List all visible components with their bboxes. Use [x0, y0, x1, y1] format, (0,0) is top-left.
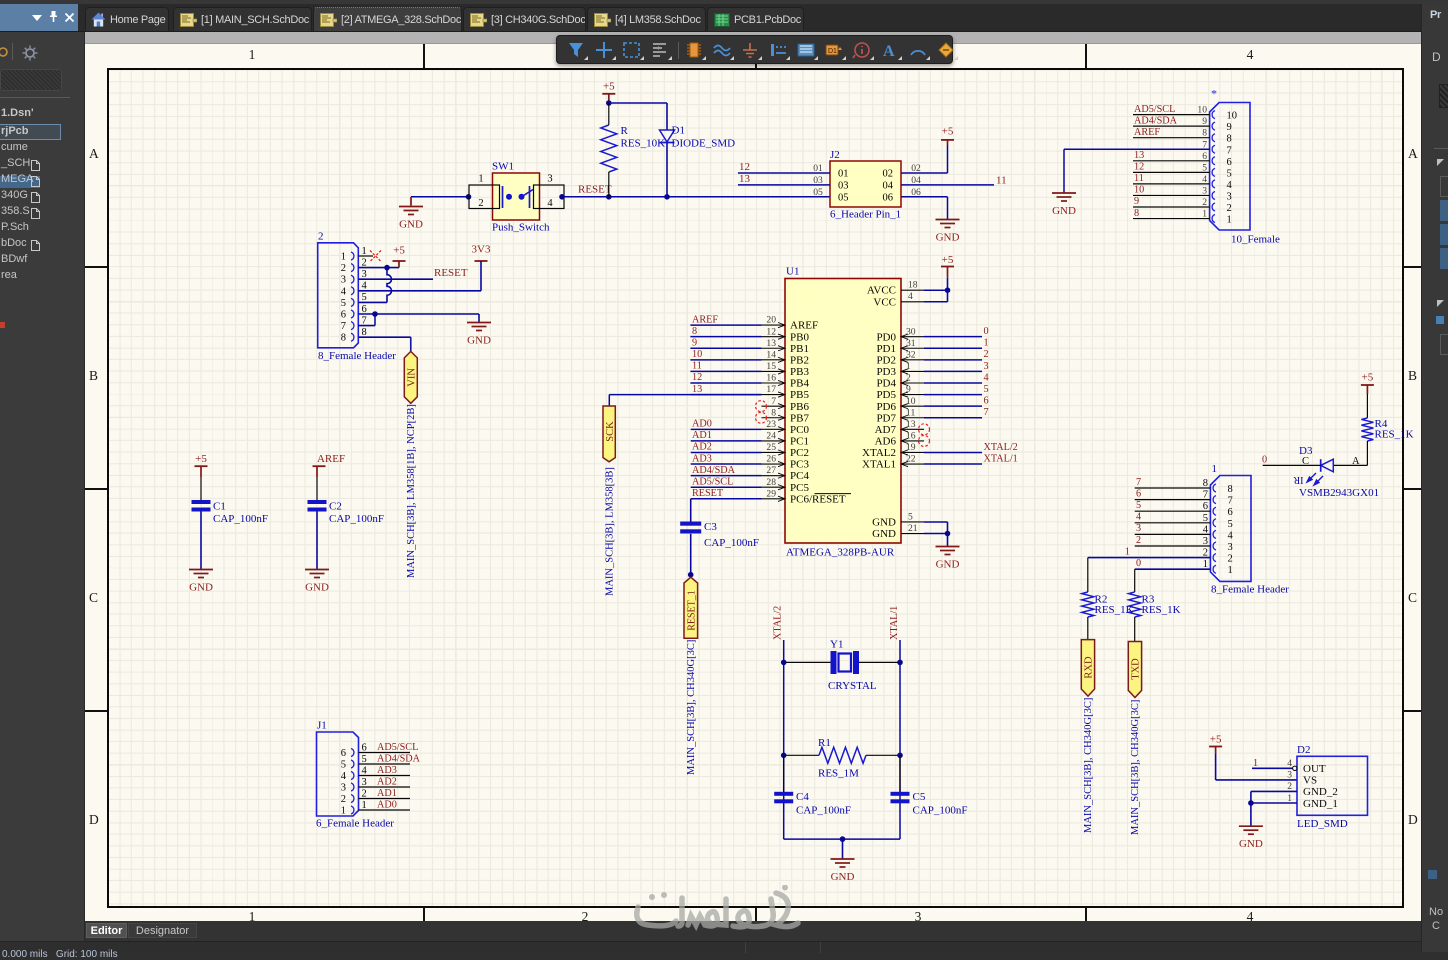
ground GND below crystal — [831, 859, 855, 867]
connector 8_Female Header (1) outline — [1210, 476, 1251, 582]
wire U1 PD6 net 6 — [924, 405, 982, 407]
wire 8_Female(r) pin 2 — [1088, 557, 1211, 559]
junction — [897, 660, 903, 666]
wire net 12 to J2 pin01 — [738, 172, 830, 174]
ground GND below D2 — [1239, 826, 1263, 834]
wire crystal right — [859, 661, 900, 663]
junction AVCC — [945, 287, 951, 293]
capacitor C1 — [192, 500, 211, 504]
junction RESET_1 — [688, 572, 694, 578]
junction +5 / R / D1 — [606, 100, 612, 106]
wire 8_Female pin 7 — [358, 325, 375, 327]
wire net AD2 — [691, 451, 762, 453]
diode D3 VSMB2943GX01 — [1321, 459, 1334, 472]
floating toolbar — [556, 35, 953, 64]
bottom editor bar — [85, 921, 1421, 942]
ground GND below J2 — [936, 220, 960, 228]
wire net AD0 — [691, 428, 762, 430]
U1 right pin PD2 (32) — [901, 359, 924, 361]
port RESET_1 — [684, 577, 698, 638]
wire net 13 to J2 pin03 — [738, 184, 830, 186]
connector J2 6_Header Pin_1 body — [830, 161, 901, 207]
wire pin8 down to VIN port — [410, 337, 412, 351]
SW1 pin box left — [469, 185, 500, 209]
U1 right pin XTAL2 (19) — [901, 451, 924, 453]
U1 left pin PB5 (17) — [762, 394, 786, 396]
wire 8_Female pin 1 — [358, 255, 373, 257]
capacitor C4 — [783, 755, 785, 792]
wire J1 pin 3 AD2 — [359, 786, 411, 788]
wire 8_Female(r) pin 6 — [1135, 510, 1211, 512]
overline on PC6/RESET — [815, 493, 852, 495]
U1 right pin AD6 (16) — [901, 440, 924, 442]
wire VCC — [901, 301, 924, 303]
wire U1 PD7 net 7 — [924, 417, 982, 419]
wire with hops pin2 to pin5 — [387, 268, 392, 303]
watermark khamsat — [630, 885, 820, 940]
ground GND below C2 — [305, 570, 329, 578]
wire 8_Female pin 6 — [358, 313, 479, 315]
crystal Y1 — [831, 651, 837, 674]
wire net 12 — [690, 382, 761, 384]
wire GND_2 — [1251, 790, 1297, 792]
wire 8_Female pin 2 — [358, 267, 399, 269]
U1 right pin XTAL1 (22) — [901, 463, 924, 465]
port TXD — [1128, 642, 1141, 698]
wire net AD3 — [691, 463, 762, 465]
wire 8_Female(r) pin 8 — [1135, 487, 1211, 489]
wire 8_Female pin 4 — [358, 290, 481, 292]
wire net 13 — [690, 394, 761, 396]
wire net 1 to D2 OUT — [1252, 767, 1293, 769]
wire bottom crystal — [784, 838, 900, 840]
junction — [897, 753, 903, 759]
wire to 10_Female pin 8 — [1133, 137, 1210, 139]
wire XTAL/1 vertical — [899, 640, 901, 839]
wire 8_Female(r) pin 7 — [1135, 499, 1211, 501]
svg-text:D1: D1 — [828, 48, 837, 55]
wire U1 PD4 net 4 — [924, 382, 982, 384]
junction GND crystal — [840, 836, 846, 842]
wire pin7 up to pin6 — [374, 314, 376, 326]
U1 right pin PD6 (10) — [901, 405, 924, 407]
U1 right pin AD7 (13) — [901, 428, 924, 430]
wire net AD4/SDA — [691, 475, 762, 477]
connector 10_Female outline — [1210, 103, 1250, 231]
junction pin2/+5 — [384, 265, 390, 271]
junction pin6/pin7 — [372, 311, 378, 317]
wire J2 pin02 to +5 — [901, 172, 948, 174]
wire XTAL2 — [924, 451, 982, 453]
svg-text:A: A — [883, 43, 895, 60]
U1 GND pins — [901, 521, 924, 523]
capacitor C5 — [899, 755, 901, 792]
wire U1 PD1 net 1 — [924, 347, 982, 349]
wire U1 PD5 net 5 — [924, 394, 982, 396]
wire net AD1 — [691, 440, 762, 442]
connector J1 outline — [317, 732, 359, 816]
wire XTAL/2 vertical — [783, 640, 785, 839]
wire 8_Female(r) pin 3 — [1135, 545, 1211, 547]
switch SW1 body — [493, 173, 540, 220]
resistor R RES_10K — [608, 103, 610, 125]
junction SW1 pin4 — [559, 194, 565, 200]
wire J2 pin06 to GND — [901, 196, 948, 198]
wire R4 to D3 — [1334, 464, 1367, 466]
junction — [781, 660, 787, 666]
wire to 10_Female pin 4 — [1133, 183, 1210, 185]
wire U1 PD0 net 0 — [924, 336, 982, 338]
wire SCK to U1 PB5 — [608, 395, 610, 406]
top dark strip — [0, 0, 1448, 32]
blue mini panel top-left — [0, 4, 78, 31]
LED D2 LED_SMD box — [1297, 756, 1368, 815]
wire 8_Female pin 3 — [358, 278, 433, 280]
port VIN — [404, 351, 417, 403]
U1 left pin PC5 (28) — [762, 486, 786, 488]
junction GND — [945, 531, 951, 537]
U1 left pin PB2 (14) — [762, 359, 786, 361]
U1 left pin PC3 (26) — [762, 463, 786, 465]
wire AREF to C2 — [316, 477, 318, 500]
U1 left pin PC6/RESET (29) — [762, 498, 786, 500]
wire net 8 — [690, 336, 761, 338]
wire XTAL1 — [924, 463, 982, 465]
capacitor — [774, 792, 793, 796]
wire net 9 — [690, 347, 761, 349]
U1 left pin PB3 (15) — [762, 370, 786, 372]
U1 left pin AREF (20) — [762, 324, 786, 326]
wire net RESET — [691, 498, 762, 500]
junction at SW1 pin2 — [466, 194, 472, 200]
status bar — [0, 941, 1448, 952]
U1 left pin PB7 (8) — [762, 417, 786, 419]
wire J1 pin 1 AD0 — [359, 809, 411, 811]
U1 left pin PC0 (23) — [762, 428, 786, 430]
port SCK — [603, 406, 615, 462]
wire 8_Female pin 8 — [358, 336, 411, 338]
wire J1 pin 2 AD1 — [359, 798, 411, 800]
U1 right pin PD4 (2) — [901, 382, 924, 384]
wire +5 node to D1 top — [609, 102, 667, 104]
U1 right pin PD0 (30) — [901, 336, 924, 338]
ground symbol (8_Female) — [467, 323, 491, 331]
wire GND to SW1 pin2 — [411, 196, 469, 198]
U1 left pin PC1 (24) — [762, 440, 786, 442]
capacitor — [891, 792, 910, 796]
U1 right pin PD5 (9) — [901, 394, 924, 396]
ground GND at 8_Female pin6 — [478, 314, 480, 322]
wire J2 pin04 net 11 — [901, 184, 994, 186]
left sidebar — [0, 32, 85, 941]
U1 left pin PC2 (25) — [762, 451, 786, 453]
wire to 10_Female pin 10 — [1133, 114, 1210, 116]
wire to 10_Female pin 6 — [1133, 160, 1210, 162]
resistor R3 RES_1K — [1134, 569, 1136, 592]
error markers AD7 AD6 — [919, 424, 930, 435]
LED arrows D3 — [1307, 473, 1323, 485]
capacitor C3 — [680, 522, 701, 526]
resistor R2 RES_1K — [1087, 558, 1089, 592]
wire 8_Female(r) pin 4 — [1135, 533, 1211, 535]
ground GND (10_Female) — [1052, 193, 1076, 201]
wire RESET down to C3 — [690, 499, 692, 522]
wire J1 pin 6 AD5/SCL — [359, 752, 411, 754]
U1 right pin PD7 (11) — [901, 417, 924, 419]
ground GND below U1 — [936, 547, 960, 555]
port RXD — [1081, 640, 1094, 697]
connector 8_Female Header (2) outline — [318, 243, 359, 348]
junction GND D2 — [1248, 800, 1254, 806]
diode D1 DIODE_SMD — [666, 103, 668, 130]
SW1 pin box right — [534, 185, 565, 209]
capacitor C2 — [308, 500, 327, 504]
sheet border — [107, 68, 1404, 908]
junction R bottom — [606, 194, 612, 200]
wire to 10_Female pin 3 — [1133, 194, 1210, 196]
wire 8_Female(r) pin 1 — [1135, 568, 1211, 570]
U1 left pin PB4 (16) — [762, 382, 786, 384]
wire to 10_Female pin 9 — [1133, 125, 1210, 127]
U1 left pin PB1 (13) — [762, 347, 786, 349]
ground GND below C1 — [189, 570, 213, 578]
wire to 10_Female pin 5 — [1133, 171, 1210, 173]
wire net 10 — [690, 359, 761, 361]
wire net AREF — [690, 324, 761, 326]
wire net 11 — [690, 370, 761, 372]
op-amp U1 ATMEGA_328PB-AUR body — [785, 279, 901, 544]
wire J1 pin 5 AD4/SDA — [359, 763, 411, 765]
wire 10_Female pin7 to GND — [1064, 148, 1210, 150]
ground GND left of SW1 — [410, 197, 412, 206]
resistor R4 RES_1K — [1361, 418, 1373, 441]
right panel — [1421, 4, 1448, 952]
U1 right pin PD1 (31) — [901, 347, 924, 349]
wire U1 PD3 net 3 — [924, 370, 982, 372]
junction D1 bottom — [664, 194, 670, 200]
wire to 10_Female pin 1 — [1133, 218, 1210, 220]
SW1 contacts — [502, 186, 504, 208]
resistor R1 — [784, 754, 819, 756]
wire to 10_Female pin 2 — [1133, 206, 1210, 208]
wire 8_Female(r) pin 5 — [1135, 522, 1211, 524]
wire GND_1 — [1251, 802, 1297, 804]
wire RESET from SW1 pin4 to J2 pin05 — [564, 196, 830, 198]
error markers PB6 PB7 — [756, 401, 767, 412]
wire 8_Female pin 5 — [358, 301, 387, 303]
U1 left pin PB0 (12) — [762, 336, 786, 338]
wire U1 PD2 net 2 — [924, 359, 982, 361]
ground symbol GND (SW1) — [399, 207, 423, 215]
wire AVCC — [901, 289, 924, 291]
wire J1 pin 4 AD3 — [359, 775, 411, 777]
wire crystal left — [784, 661, 831, 663]
U1 right pin PD3 (1) — [901, 370, 924, 372]
wire net AD5/SCL — [691, 486, 762, 488]
U1 left pin PC4 (27) — [762, 475, 786, 477]
U1 left pin PB6 (7) — [762, 405, 786, 407]
tabs — [85, 7, 169, 31]
junction — [781, 753, 787, 759]
